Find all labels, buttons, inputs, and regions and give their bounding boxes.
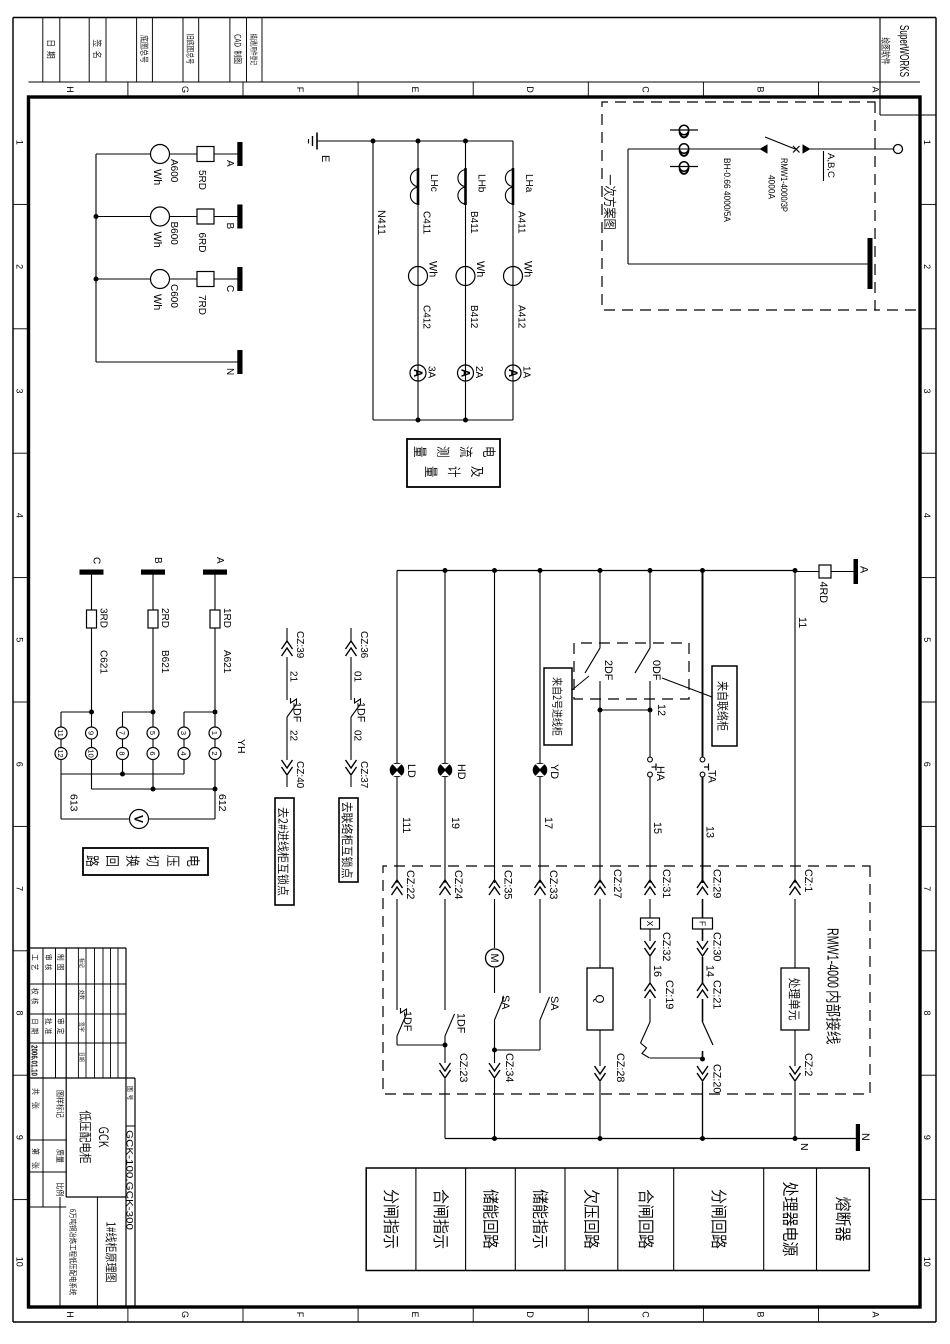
svg-text:8: 8 <box>118 751 127 755</box>
wire CZ28 to rail <box>599 1082 601 1139</box>
svg-text:B412: B412 <box>468 305 479 329</box>
voltmeter V <box>130 810 149 829</box>
primary scheme dashed box <box>602 102 875 310</box>
title GCK <box>99 1127 109 1133</box>
wire C to YH9 <box>91 712 93 727</box>
svg-text:C: C <box>640 86 650 93</box>
terminal YH-12 <box>55 748 67 760</box>
connector CZ:39 <box>282 641 293 649</box>
title 工程名称 <box>70 1209 76 1212</box>
wire 1DF corner r1 <box>396 1036 398 1045</box>
wire pair 5-6 <box>152 739 154 748</box>
svg-text:SuperWORKS: SuperWORKS <box>897 25 912 77</box>
svg-text:5: 5 <box>922 637 932 642</box>
svg-text:CZ:36: CZ:36 <box>358 631 369 659</box>
wire CZ1 to unit <box>794 899 796 968</box>
svg-text:2RD: 2RD <box>159 608 170 628</box>
svg-text:4: 4 <box>15 513 25 518</box>
wire rail to LD <box>396 571 398 763</box>
ammeter 2A <box>458 365 474 381</box>
wire 14 <box>702 957 704 983</box>
svg-text:12: 12 <box>56 749 65 757</box>
svg-text:5: 5 <box>148 731 157 735</box>
svg-text:A: A <box>459 369 471 377</box>
zone letter strip lines <box>29 81 921 83</box>
wire pair 9-10 <box>91 739 93 748</box>
svg-text:LHc: LHc <box>428 174 439 192</box>
function table row lines <box>816 1168 818 1271</box>
svg-text:A: A <box>871 1311 881 1317</box>
svg-text:1: 1 <box>922 140 932 145</box>
svg-text:Wh: Wh <box>151 294 163 310</box>
svg-text:612: 612 <box>216 794 228 812</box>
connector CZ:20 <box>697 1066 708 1074</box>
svg-text:2: 2 <box>15 264 25 269</box>
svg-text:C: C <box>640 1311 650 1318</box>
svg-text:21: 21 <box>288 671 299 683</box>
svg-text:SA: SA <box>548 996 560 1011</box>
meter Wh A <box>151 145 170 164</box>
wire A upper <box>214 153 238 155</box>
wire C411 <box>417 141 419 420</box>
title row 工艺 <box>32 954 38 960</box>
CT secondary LHa <box>512 168 515 205</box>
svg-text:G: G <box>180 86 190 93</box>
junction right bus B <box>463 418 468 423</box>
wire rail to TA <box>702 571 704 758</box>
wire 22 <box>286 717 288 760</box>
svg-text:A: A <box>214 557 225 564</box>
svg-text:A600: A600 <box>168 159 179 183</box>
svg-text:7RD: 7RD <box>196 295 207 315</box>
junction r3 node <box>492 1048 497 1053</box>
fuse 4RD <box>819 565 831 578</box>
function table frame <box>366 1168 869 1271</box>
svg-text:G: G <box>180 1311 190 1318</box>
wire pair 1-2 <box>214 739 216 748</box>
svg-text:3: 3 <box>179 731 188 735</box>
svg-text:CZ:2: CZ:2 <box>802 1053 814 1076</box>
title revision header <box>79 958 84 963</box>
bridge 2DF-0DF <box>600 709 650 711</box>
box char 换 <box>126 855 139 866</box>
meter Wh B <box>151 207 170 226</box>
coil Q <box>587 968 613 1030</box>
wire pair 7-8 <box>122 739 124 748</box>
label box 来自2号进线柜 <box>544 668 572 745</box>
junction rail r8 <box>793 568 798 573</box>
svg-text:4000A: 4000A <box>766 175 777 200</box>
svg-text:CZ:37: CZ:37 <box>358 761 369 789</box>
svg-text:6: 6 <box>15 762 25 767</box>
wire 15 <box>649 777 651 883</box>
wire 613 <box>61 818 130 820</box>
box char 路 <box>86 855 99 866</box>
link HA <box>648 757 653 762</box>
svg-text:N: N <box>798 1143 810 1151</box>
title 低压配电柜 <box>79 1111 91 1121</box>
wire 01 <box>350 657 352 700</box>
svg-text:C412: C412 <box>421 305 432 329</box>
wire C left <box>91 574 93 610</box>
wire CZ22 to 1DF <box>396 899 398 1010</box>
svg-text:0DF: 0DF <box>650 660 662 681</box>
svg-text:14: 14 <box>704 965 716 977</box>
svg-text:4: 4 <box>922 513 932 518</box>
svg-text:2: 2 <box>210 751 219 755</box>
svg-text:3: 3 <box>15 388 25 393</box>
connector CZ:24 <box>440 880 451 888</box>
svg-text:6RD: 6RD <box>196 233 207 253</box>
CT circuit right bus <box>373 419 513 421</box>
svg-text:Wh: Wh <box>151 169 163 185</box>
junction left bus B <box>463 139 468 144</box>
ammeter 3A <box>410 365 426 381</box>
svg-text:LHb: LHb <box>476 174 487 193</box>
fuse 6RD <box>197 209 214 224</box>
wire below breaker <box>628 148 760 150</box>
svg-text:F: F <box>295 1312 305 1318</box>
wire CZ27 to Q <box>599 899 601 968</box>
svg-text:2: 2 <box>922 264 932 269</box>
svg-text:7: 7 <box>118 731 127 735</box>
wire C C600 <box>170 278 198 280</box>
connector CZ:35 <box>489 880 500 888</box>
svg-text:2A: 2A <box>473 366 484 379</box>
wire N411 <box>372 141 374 420</box>
interlock to tie wire start <box>350 628 352 641</box>
svg-text:01: 01 <box>352 671 363 683</box>
wire A A600 <box>170 153 198 155</box>
svg-text:15: 15 <box>651 822 663 834</box>
wire to busbar <box>627 149 629 264</box>
fuse 1RD <box>210 610 220 628</box>
terminal YH-11 <box>55 727 67 739</box>
wire CZ35 to M <box>494 899 496 948</box>
connector CZ:19 <box>645 983 656 991</box>
svg-text:E: E <box>319 155 331 162</box>
wire X to CZ32 <box>649 929 651 941</box>
wire B upper <box>214 216 238 218</box>
connector CZ:34 <box>489 1063 500 1071</box>
label 一次方案图 <box>609 175 612 185</box>
svg-text:7: 7 <box>15 886 25 891</box>
wire to F <box>702 899 704 918</box>
title 质量 <box>56 1149 64 1155</box>
wire rail to YD <box>539 571 541 763</box>
connector CZ:22 <box>392 880 403 888</box>
right rail N <box>445 1138 856 1140</box>
svg-text:A,B,C: A,B,C <box>825 153 836 178</box>
wire A to YH1 <box>214 712 216 727</box>
svg-text:Q: Q <box>593 995 605 1004</box>
function table labels <box>836 1197 852 1211</box>
junction rail r3 <box>492 568 497 573</box>
svg-text:CZ:21: CZ:21 <box>711 980 723 1009</box>
junction rail r2 <box>443 568 448 573</box>
svg-text:Wh: Wh <box>151 232 163 248</box>
title 图样标记 <box>56 1091 63 1097</box>
svg-text:B600: B600 <box>168 222 179 246</box>
svg-text:8: 8 <box>15 1010 25 1015</box>
svg-text:9: 9 <box>15 1135 25 1140</box>
wire 13 <box>702 777 704 883</box>
junction right bus C <box>416 418 421 423</box>
svg-text:1DF: 1DF <box>291 702 303 723</box>
svg-text:CZ:20: CZ:20 <box>711 1064 723 1093</box>
junction rail r5 right <box>598 1136 603 1141</box>
svg-text:X: X <box>645 921 655 927</box>
svg-text:LD: LD <box>405 764 417 778</box>
svg-text:CZ:1: CZ:1 <box>802 869 814 892</box>
title row 制图 <box>57 954 64 960</box>
svg-text:1A: 1A <box>521 366 532 379</box>
wire 2DF on <box>599 681 601 883</box>
incoming terminal <box>894 145 903 154</box>
svg-text:8: 8 <box>922 1010 932 1015</box>
label box 去2#进线柜互锁点 <box>275 798 294 905</box>
interlock to incomer2 wire start <box>286 628 288 641</box>
svg-text:6: 6 <box>148 751 157 755</box>
svg-text:C621: C621 <box>98 650 109 674</box>
wire 21 <box>286 657 288 700</box>
dashed box RMW1-4000 internal <box>383 866 870 1094</box>
svg-text:N: N <box>224 368 235 375</box>
wire rail to 2DF <box>599 571 601 649</box>
wire C lower <box>96 278 151 280</box>
ground E <box>316 133 318 150</box>
box char 回 <box>106 856 119 866</box>
svg-text:B621: B621 <box>159 650 170 674</box>
branch C to YH11 <box>61 711 92 713</box>
svg-text:CZ:23: CZ:23 <box>457 1053 469 1082</box>
label box 电压切换回路 <box>83 848 208 875</box>
sheet outer border <box>935 18 937 1323</box>
svg-text:M: M <box>488 954 500 963</box>
lamp YD <box>533 763 548 778</box>
svg-text:HD: HD <box>455 764 467 780</box>
svg-text:BH-0.66 4000/5A: BH-0.66 4000/5A <box>721 158 732 223</box>
svg-text:A: A <box>411 369 423 377</box>
svg-text:A411: A411 <box>516 211 527 234</box>
svg-text:2DF: 2DF <box>602 660 614 681</box>
SuperWORKS cell <box>879 18 881 116</box>
wire rail to 0DF <box>649 571 651 649</box>
svg-text:B: B <box>755 1311 765 1317</box>
meter Wh C row <box>409 267 428 286</box>
wire A lower <box>96 153 151 155</box>
svg-text:SA: SA <box>499 995 511 1010</box>
contact SA r4 <box>540 997 550 1020</box>
wire B B600 <box>170 216 198 218</box>
title 图号 label <box>127 1086 133 1091</box>
svg-text:C600: C600 <box>168 284 179 308</box>
svg-text:CZ:34: CZ:34 <box>503 1053 515 1082</box>
wire 111 <box>396 777 398 883</box>
svg-text:613: 613 <box>68 794 80 812</box>
wire pair 3-4 <box>183 739 185 748</box>
svg-text:H: H <box>65 1311 75 1318</box>
wire SA to node r3 <box>494 1020 496 1063</box>
wire CZ34 to rail <box>494 1079 496 1139</box>
wire 19 <box>444 777 446 883</box>
connector CZ:31 <box>645 880 656 888</box>
wire CZ2 to rail <box>794 1082 796 1139</box>
svg-text:CZ:28: CZ:28 <box>614 1053 626 1082</box>
CT secondary LHc <box>417 168 420 205</box>
svg-text:CZ:39: CZ:39 <box>294 631 305 659</box>
svg-text:Wh: Wh <box>427 261 439 277</box>
svg-text:7: 7 <box>922 886 932 891</box>
drop r6 to r7 <box>650 1057 703 1059</box>
CT BH primary stubs <box>670 129 698 131</box>
title block grid <box>29 947 127 949</box>
svg-text:A: A <box>858 566 870 574</box>
meter Wh B row <box>456 267 475 286</box>
svg-text:1: 1 <box>15 140 25 145</box>
junction A <box>213 710 218 715</box>
terminal YH-2 <box>209 748 221 760</box>
junction r6 bridge <box>648 708 653 713</box>
svg-text:CZ:30: CZ:30 <box>711 932 723 961</box>
svg-text:CZ:24: CZ:24 <box>452 870 464 899</box>
junction rail r3 right <box>492 1136 497 1141</box>
svg-text:02: 02 <box>352 730 363 742</box>
junction YH2 corner <box>213 787 218 792</box>
svg-text:Wh: Wh <box>522 261 534 277</box>
connector CZ:28 <box>595 1066 606 1074</box>
terminal YH-5 <box>147 727 159 739</box>
wire CZ24 to 1DF <box>444 899 446 1010</box>
left rail phase A <box>397 570 795 572</box>
breaker QF contact cross <box>793 146 800 153</box>
svg-text:10: 10 <box>87 749 96 757</box>
svg-text:111: 111 <box>400 817 412 833</box>
contact 1DF r2 <box>445 1014 455 1036</box>
svg-text:1: 1 <box>210 731 219 735</box>
wire rail to HD <box>444 571 446 763</box>
wire B to YH5 <box>152 712 154 727</box>
junction rail r8 right <box>793 1136 798 1141</box>
terminal YH-9 <box>86 727 98 739</box>
svg-text:Wh: Wh <box>474 261 486 277</box>
wire B lower <box>96 216 151 218</box>
terminal YH-8 <box>117 748 129 760</box>
label box 来自联络柜 <box>712 666 737 746</box>
svg-text:9: 9 <box>87 731 96 735</box>
svg-text:3: 3 <box>922 388 932 393</box>
contact 1DF r1 <box>397 1014 407 1036</box>
terminal YH-10 <box>86 748 98 760</box>
svg-text:N411: N411 <box>375 210 387 235</box>
breaker QF drawout chevron bottom <box>760 144 768 154</box>
link TA <box>700 757 705 762</box>
junction B <box>151 710 156 715</box>
breaker QF drawout chevron top <box>803 144 811 154</box>
wire SA corner r4 <box>539 1020 541 1050</box>
connector CZ:1 <box>790 880 801 888</box>
wire Q to CZ28 <box>599 1030 601 1066</box>
wire 16 <box>649 957 651 983</box>
junction r7 node <box>700 1057 705 1062</box>
svg-text:YD: YD <box>548 764 560 779</box>
connector CZ:2 <box>790 1066 801 1074</box>
CT secondary LHb <box>464 168 467 205</box>
svg-text:17: 17 <box>542 817 554 829</box>
branch A to YH3 <box>184 711 215 713</box>
wire CZ33 to SA <box>539 899 541 993</box>
junction left bus C <box>416 139 421 144</box>
svg-text:CZ:27: CZ:27 <box>611 869 623 898</box>
wire C upper <box>214 278 238 280</box>
busbar tap A <box>237 142 242 166</box>
junction rail r5 <box>598 568 603 573</box>
svg-text:N: N <box>859 1133 871 1141</box>
wire CZ23 to rail <box>444 1079 446 1139</box>
wire contact to node <box>702 1051 704 1059</box>
connector CZ:29 <box>697 880 708 888</box>
junction r2 node <box>443 1043 448 1048</box>
fuse 7RD <box>197 272 214 287</box>
lamp HD <box>438 763 453 778</box>
box char 切 <box>146 855 159 866</box>
metering bus <box>95 154 97 362</box>
wire 612 <box>214 789 216 819</box>
release F <box>693 918 713 929</box>
svg-text:D: D <box>525 86 535 93</box>
svg-text:11: 11 <box>796 617 808 628</box>
svg-text:4RD: 4RD <box>817 582 829 604</box>
busbar tap C <box>237 267 242 291</box>
svg-text:A: A <box>506 369 518 377</box>
svg-text:E: E <box>410 1311 420 1317</box>
svg-text:C: C <box>224 285 235 292</box>
svg-text:RMW1-4000/3P: RMW1-4000/3P <box>778 158 789 212</box>
label box 电流测量及计量 <box>407 439 500 487</box>
fuse 3RD <box>87 610 97 628</box>
contact 2DF <box>585 648 600 673</box>
svg-text:1DF: 1DF <box>455 1013 467 1034</box>
lamp LD <box>390 763 405 778</box>
svg-text:D: D <box>525 1311 535 1318</box>
terminal YH-7 <box>117 727 129 739</box>
svg-text:11: 11 <box>56 729 65 737</box>
margin label 旧底图总号 <box>187 34 194 39</box>
margin label 底图总号 <box>140 35 148 41</box>
svg-text:CZ:29: CZ:29 <box>711 869 723 898</box>
wire rail to CZ35 <box>494 571 496 884</box>
wire A A621 <box>214 628 216 712</box>
svg-text:2006.01.10: 2006.01.10 <box>30 1045 40 1076</box>
wire 1DF to node r2 <box>444 1036 446 1063</box>
CT circuit left bus <box>317 140 513 142</box>
svg-text:F: F <box>698 921 708 926</box>
title row 审核 <box>45 955 52 960</box>
meter Wh C <box>151 270 170 289</box>
wire CZ19 to contact <box>649 999 651 1022</box>
wire A411 <box>512 141 514 420</box>
svg-text:LHa: LHa <box>523 174 534 193</box>
busbar tap N <box>237 350 242 374</box>
voltage tap C <box>80 570 104 575</box>
terminal YH-3 <box>178 727 190 739</box>
connector CZ:30 <box>697 941 708 949</box>
wire N <box>96 361 238 363</box>
contact 1DF interlock to incomer2 <box>287 704 297 717</box>
margin strip cells <box>42 18 44 83</box>
svg-text:5RD: 5RD <box>196 170 207 190</box>
fuse 2RD <box>148 610 158 628</box>
